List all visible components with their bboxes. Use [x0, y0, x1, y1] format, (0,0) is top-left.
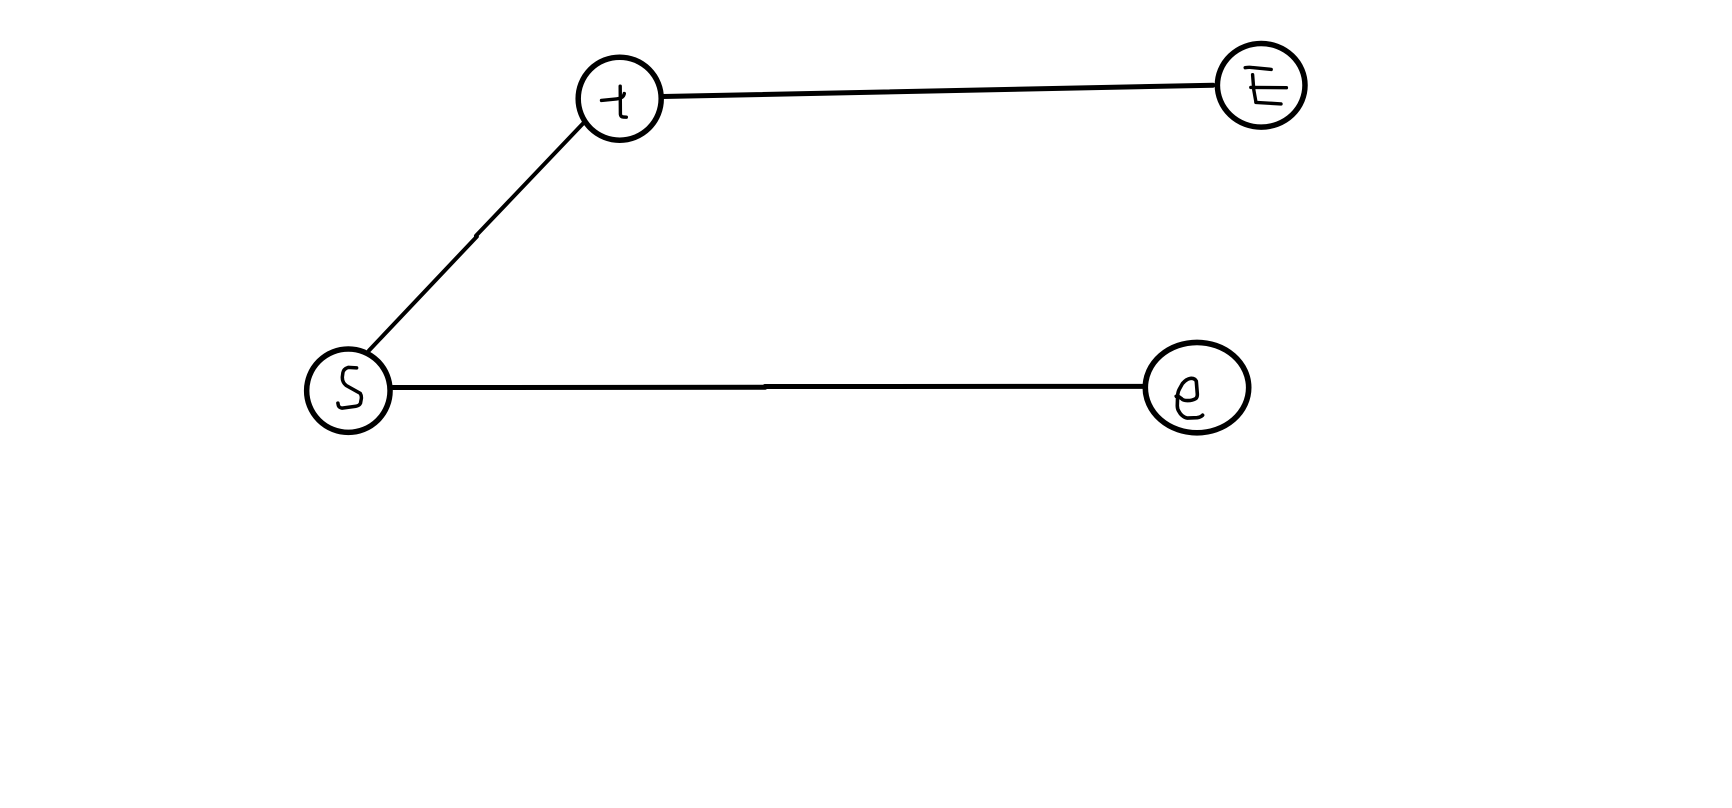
wire S-e (left stroke)	[393, 385, 765, 390]
wire S-e (right stroke)	[765, 384, 1143, 389]
node E label middle bar	[1251, 86, 1287, 90]
node E label spine	[1253, 75, 1256, 102]
node S label "S"	[338, 367, 362, 408]
node t label "t" stem	[620, 86, 626, 117]
node E label bottom bar	[1256, 102, 1281, 104]
node t circle	[578, 57, 661, 140]
node t label "t" crossbar	[602, 94, 625, 101]
wire t-E	[663, 85, 1213, 96]
node e label "e"	[1176, 378, 1202, 418]
node e circle	[1145, 342, 1248, 432]
node S circle	[307, 349, 390, 432]
wire S-t (upper stroke)	[476, 123, 584, 236]
wire S-t (lower stroke)	[369, 237, 477, 351]
node E label top bar	[1245, 67, 1271, 69]
node E circle	[1217, 44, 1305, 128]
